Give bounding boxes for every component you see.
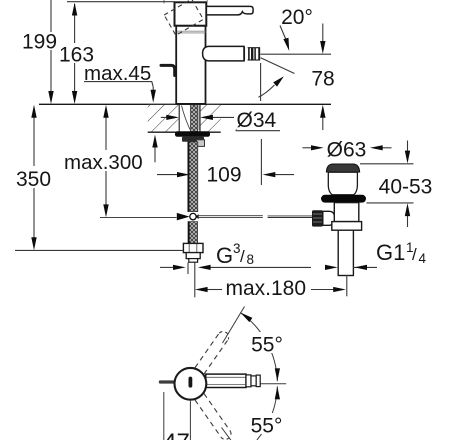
aerator rings xyxy=(248,47,260,60)
top edge cut tick right xyxy=(206,0,208,2)
countertop hatched section left xyxy=(148,105,179,132)
tick at aerator projection (109 right) xyxy=(260,139,262,185)
drain tailpipe xyxy=(338,230,353,275)
flexible hose upper xyxy=(188,142,198,212)
pivot circle xyxy=(190,213,196,219)
arrow o63 right xyxy=(311,145,324,150)
G3/8 ext line right / max180 left tick xyxy=(194,262,196,297)
arrow o34 left xyxy=(200,115,213,120)
svg-text:47: 47 xyxy=(163,429,190,440)
20 deg leader xyxy=(280,26,287,43)
max180 dim line left tail xyxy=(206,289,222,291)
dim 163 line xyxy=(74,4,76,92)
dim 78 line lower xyxy=(322,116,324,130)
label 55 top xyxy=(250,332,285,353)
arrow 78 down xyxy=(320,41,325,54)
svg-text:199: 199 xyxy=(22,31,57,54)
faucet body U1 xyxy=(176,26,205,104)
hose left dark edge xyxy=(188,142,190,212)
arrow G114 left xyxy=(354,265,367,270)
dim 109 tails xyxy=(157,174,179,176)
arrow max180 right xyxy=(333,287,346,292)
78 reference top line xyxy=(260,53,331,55)
drain seal ring (black) xyxy=(321,195,366,203)
dim 40-53 bottom tick xyxy=(367,202,414,204)
arrow max45 down xyxy=(151,90,156,103)
pivot right wedge xyxy=(196,214,199,219)
spout end cap line xyxy=(243,47,245,61)
drain collar xyxy=(332,222,362,231)
arrow G38 right xyxy=(173,265,186,270)
55 deg bottom arc xyxy=(257,386,277,440)
dim 40-53 line upper xyxy=(407,141,409,152)
o34 underline xyxy=(236,130,281,132)
svg-text:/: / xyxy=(240,247,245,266)
arrow max300 down xyxy=(103,204,108,217)
svg-text:max.45: max.45 xyxy=(84,62,151,85)
pop-up rod after break xyxy=(268,215,313,217)
hose connector G3/8 nut xyxy=(183,243,203,252)
arrow 109 left xyxy=(263,172,276,177)
mounting nut xyxy=(182,137,204,142)
cartridge ring lines xyxy=(177,30,206,32)
shank funnel line left xyxy=(182,106,191,130)
pop-up rod right double line xyxy=(196,215,263,217)
threaded shank through deck xyxy=(190,105,197,132)
G1 1/4 arrow tails xyxy=(353,266,377,268)
dim 40-53 top tick xyxy=(360,163,414,165)
pull-rod knob xyxy=(161,65,175,75)
arrow 40-53 up xyxy=(405,203,410,216)
dim 163 tick top xyxy=(67,1,174,3)
arrow 199 down xyxy=(48,91,53,104)
pop-up rod left tick / rod xyxy=(100,217,177,219)
label max.180 xyxy=(224,277,310,299)
label 350 xyxy=(14,166,54,188)
wire deck top line xyxy=(39,103,331,105)
handle block xyxy=(175,2,207,25)
label 199 xyxy=(24,32,56,50)
aerator projection line upper xyxy=(260,63,262,101)
arrow top-arc lower xyxy=(275,368,280,381)
arrow bottom-arc upper xyxy=(275,386,280,399)
arrow 20deg leader xyxy=(283,38,289,51)
wire deck bottom line xyxy=(148,131,221,133)
drain flange body xyxy=(328,172,357,195)
arrow top-arc upper xyxy=(240,313,252,323)
dashed handle rotated outline xyxy=(164,0,203,35)
flexible hose lower xyxy=(188,222,198,244)
arrow max45 up (below deck) xyxy=(152,135,157,148)
arrow max300 up xyxy=(103,105,108,118)
shank light strip right xyxy=(198,106,200,131)
label 40-53 xyxy=(378,175,434,195)
drain upper body xyxy=(334,203,359,222)
label 55 bottom xyxy=(249,413,284,434)
svg-text:40-53: 40-53 xyxy=(379,175,433,198)
axis extension down xyxy=(222,428,232,440)
dashed lever rotated up xyxy=(195,332,229,374)
label max.300 xyxy=(62,150,145,171)
20 deg arc tail xyxy=(259,85,275,97)
arrow 78 up xyxy=(320,105,325,118)
dim 350 bottom tick xyxy=(15,249,184,251)
lever arm xyxy=(206,6,253,15)
dim 40-53 line lower xyxy=(407,216,409,228)
arrow G114 right xyxy=(325,265,338,270)
svg-text:350: 350 xyxy=(16,168,51,191)
pivot joint bowtie xyxy=(177,213,190,221)
svg-text:20°: 20° xyxy=(281,6,313,29)
dim 78 line upper xyxy=(322,24,324,43)
svg-text:max.300: max.300 xyxy=(64,151,143,174)
mounting washer (black) xyxy=(175,131,210,137)
drain pop-up dome xyxy=(326,164,359,172)
svg-text:Ø63: Ø63 xyxy=(327,138,367,161)
axis extension up xyxy=(223,307,245,344)
arrow 20deg arc xyxy=(273,76,284,86)
dashed lever rotated down xyxy=(195,394,231,440)
dim 350 line xyxy=(33,116,35,238)
svg-text:max.180: max.180 xyxy=(226,277,307,300)
arrow 163 down xyxy=(72,91,77,104)
drain inlet port xyxy=(323,211,335,225)
svg-text:4: 4 xyxy=(419,251,427,266)
arrow max180 left xyxy=(195,287,208,292)
svg-text:Ø34: Ø34 xyxy=(237,109,277,132)
horizontal axis extension xyxy=(259,383,286,385)
stem max45 partner arrow xyxy=(154,146,156,162)
dim max45 underline leader xyxy=(84,82,153,87)
arrow o34 right xyxy=(166,115,179,120)
hole edge lines xyxy=(178,104,180,132)
knurled adjuster knob xyxy=(312,210,323,226)
dim 47 tick left xyxy=(163,392,165,440)
lever top view xyxy=(206,374,246,387)
arrow 350 up xyxy=(31,105,36,118)
arrow 109 right xyxy=(177,172,190,177)
svg-text:/: / xyxy=(412,245,417,264)
G3/8 ext line left xyxy=(187,262,189,274)
arrow 40-53 down xyxy=(405,151,410,164)
max180 dim line right tail xyxy=(311,289,335,291)
max180 right tick (drain CL) xyxy=(346,275,348,296)
arrow G38 left xyxy=(198,265,211,270)
20 deg diagonal xyxy=(261,58,295,74)
arrow 350 down xyxy=(31,237,36,250)
dim max300 line xyxy=(105,116,107,206)
label 163 xyxy=(60,43,94,63)
dim 47 tick right xyxy=(189,401,191,440)
countertop hatched section right xyxy=(200,105,221,132)
body circle top view xyxy=(175,368,207,400)
svg-text:8: 8 xyxy=(247,252,255,267)
G3/8 arrow tails xyxy=(160,266,174,268)
55 deg top arc xyxy=(240,313,277,382)
label O34 xyxy=(234,109,279,129)
lever cap bands xyxy=(246,375,251,387)
arrow 163 up xyxy=(72,3,77,16)
svg-text:G1: G1 xyxy=(376,240,405,265)
arrow o63 left xyxy=(370,145,383,150)
label G3/8 xyxy=(212,243,262,265)
svg-text:55°: 55° xyxy=(251,414,283,437)
dim o63 tails xyxy=(303,147,313,149)
stem max45 arrow xyxy=(152,87,154,92)
dim o34 arrow tails xyxy=(161,116,168,118)
slot in circle xyxy=(189,377,193,388)
left stub (pull rod top view) xyxy=(159,380,175,383)
label O63 xyxy=(324,139,370,158)
svg-text:109: 109 xyxy=(206,163,241,186)
svg-text:78: 78 xyxy=(311,68,334,91)
rod holder tab xyxy=(197,140,205,147)
dim 199 line xyxy=(50,0,52,92)
spout xyxy=(203,46,244,61)
svg-text:G: G xyxy=(216,243,233,268)
svg-text:55°: 55° xyxy=(251,334,283,357)
top edge cut tick left xyxy=(163,0,165,4)
